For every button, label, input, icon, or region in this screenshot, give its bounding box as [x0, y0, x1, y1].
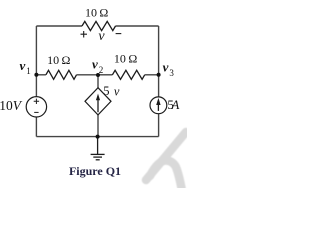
resistor R-right 10ohm zigzag — [112, 70, 144, 79]
node v2 junction dot — [96, 73, 100, 77]
resistor R-top 10ohm zigzag — [82, 21, 115, 30]
ground — [91, 137, 105, 160]
bottom junction dot — [96, 135, 100, 139]
svg-text:v: v — [163, 60, 169, 75]
wire top-left vertical (v1 up to top wire) — [35, 26, 37, 75]
node v1 junction dot — [34, 73, 38, 77]
svg-text:A: A — [170, 97, 179, 112]
wire middle horizontal v1 to left resistor — [36, 74, 46, 76]
svg-text:10 Ω: 10 Ω — [114, 52, 137, 66]
svg-text:10 Ω: 10 Ω — [85, 6, 108, 20]
label + of top v — [81, 31, 88, 38]
dependent source diamond 5v — [85, 88, 111, 115]
wire left vertical below 10V source — [35, 117, 37, 137]
svg-text:v: v — [114, 84, 120, 98]
V1 plus sign — [34, 99, 39, 113]
svg-text:Figure Q1: Figure Q1 — [69, 164, 121, 178]
dependent source arrow — [96, 94, 100, 113]
wire top horizontal right segment — [116, 25, 159, 27]
wire middle branch diamond to bottom — [97, 115, 99, 137]
current source arrow — [156, 98, 160, 111]
wire right vertical below 5A source — [158, 114, 160, 137]
svg-text:v: v — [98, 29, 105, 44]
svg-text:10 Ω: 10 Ω — [47, 53, 70, 67]
voltage source V1 10V circle — [26, 97, 46, 117]
V1 minus sign — [34, 111, 38, 113]
wire left vertical above 10V source — [35, 75, 37, 97]
svg-text:2: 2 — [99, 65, 104, 75]
svg-text:5: 5 — [103, 84, 109, 98]
node v3 junction dot — [157, 73, 161, 77]
wire top horizontal left segment — [36, 25, 82, 27]
current source I1 5A circle — [150, 97, 167, 114]
wire middle horizontal v2 to right resistor — [98, 74, 112, 76]
wire bottom horizontal — [36, 136, 158, 138]
label - of top v — [116, 33, 122, 35]
wire right vertical v3 to 5A source — [158, 75, 160, 97]
svg-text:1: 1 — [26, 66, 31, 76]
resistor R-left 10ohm zigzag — [46, 70, 77, 79]
wire middle branch v2 to diamond — [97, 75, 99, 88]
wire right vertical top (top wire down to v3) — [158, 26, 160, 75]
svg-text:v: v — [92, 56, 98, 71]
svg-text:10V: 10V — [0, 98, 23, 113]
wire middle horizontal right resistor to v3 — [145, 74, 159, 76]
svg-text:3: 3 — [169, 68, 174, 78]
svg-text:v: v — [20, 58, 26, 73]
wire middle horizontal left resistor to v2 — [77, 74, 99, 76]
